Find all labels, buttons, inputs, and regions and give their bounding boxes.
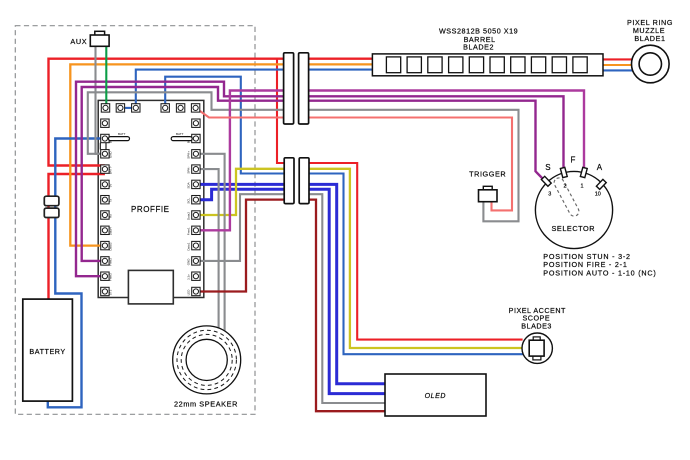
selector terminal 10 [596, 179, 606, 189]
svg-text:3: 3 [548, 192, 551, 198]
pad left nc [101, 119, 109, 127]
svg-text:SPK+: SPK+ [187, 151, 191, 159]
svg-text:SELECTOR: SELECTOR [551, 224, 595, 233]
pad left ST3 [101, 287, 109, 295]
svg-text:SPK-: SPK- [187, 167, 191, 174]
selector terminal 1 [580, 167, 587, 177]
svg-text:A: A [597, 163, 603, 172]
pad right Free1 [192, 226, 200, 234]
svg-text:SCL: SCL [187, 197, 191, 203]
svg-text:S: S [545, 163, 550, 172]
trigger momentary switch body [479, 190, 498, 202]
accessory pass-through tube assembly lower [284, 158, 308, 203]
pad right BATT [192, 134, 200, 142]
wire blue bridge pad2-pad3 [120, 107, 135, 109]
svg-text:BATTERY: BATTERY [29, 347, 65, 356]
pad right SCL [192, 196, 200, 204]
svg-text:Free3: Free3 [108, 273, 112, 281]
scope LED top tab [533, 337, 540, 341]
svg-text:BATT-: BATT- [108, 166, 112, 174]
svg-text:OLED: OLED [425, 393, 446, 400]
svg-text:Rx: Rx [108, 214, 112, 218]
BATT+ strip right [171, 137, 192, 141]
svg-text:LED: LED [187, 289, 191, 296]
wire gray speaker wire 1 [196, 154, 225, 340]
svg-text:5V: 5V [108, 184, 112, 188]
svg-text:Data1: Data1 [187, 242, 191, 250]
selector terminal 3 [541, 176, 551, 186]
pad right 3.3v [192, 272, 200, 280]
wire blue pad4 to scope pixel negative [165, 77, 523, 355]
pixel ring muzzle BLADE1 [632, 45, 670, 83]
svg-text:Data3: Data3 [108, 242, 112, 250]
svg-text:Free2: Free2 [108, 258, 112, 266]
svg-text:10: 10 [595, 192, 601, 198]
svg-text:Data2: Data2 [187, 212, 191, 220]
selector knob pointer (dashed) [552, 176, 580, 218]
pad left Tx [101, 196, 109, 204]
svg-text:BLADE1: BLADE1 [634, 34, 665, 43]
wire gray trigger ground: GND pad loop over board to trigger [88, 92, 519, 221]
pad right SDA [192, 180, 200, 188]
pad top 3 [132, 104, 140, 112]
pad left GND [101, 150, 109, 158]
wire dark red 3.3V LED pad to OLED power [196, 200, 385, 412]
pad left 5V [101, 180, 109, 188]
chassis dashed boundary box [15, 26, 255, 415]
selector terminal 2 [560, 167, 567, 177]
wire red branch down to lower tube, to scope pixel power [277, 59, 523, 340]
wire SDA deep blue to OLED [196, 184, 385, 383]
battery 2-pin connector block upper [44, 196, 59, 206]
wire purple Free3 pad to selector terminal 2 [76, 82, 564, 277]
BATT+ strip left [109, 137, 130, 141]
pad top 4 [161, 104, 169, 112]
pad right SPK+ [192, 150, 200, 158]
pad left Data3 [101, 241, 109, 249]
pad left BATT- [101, 165, 109, 173]
pad right nc [192, 119, 200, 127]
svg-text:PROFFIE: PROFFIE [131, 205, 170, 214]
wire purple Free2 pad to selector terminal 3 [82, 87, 545, 261]
battery BT1 [23, 299, 73, 401]
scope LED bottom tab [533, 356, 541, 360]
pad right LED [192, 287, 200, 295]
wire blue strip to muzzle ring [603, 69, 634, 71]
battery 2-pin connector block lower [44, 208, 59, 217]
svg-text:AUX: AUX [70, 37, 87, 46]
svg-text:Data4: Data4 [108, 227, 112, 235]
pad link BATT to GND left [100, 143, 106, 150]
wire gray speaker wire 2 [196, 169, 219, 340]
svg-text:1: 1 [580, 183, 583, 189]
svg-text:Tx: Tx [108, 199, 112, 203]
wire orange Data3 pad to barrel strip data [70, 64, 372, 245]
pad right Data1 [192, 241, 200, 249]
OLED display module [385, 374, 486, 416]
svg-text:BLADE2: BLADE2 [463, 43, 494, 52]
pad right SPK- [192, 165, 200, 173]
wire battery positive red: pad to 2-pin connector to battery [49, 174, 105, 299]
svg-text:GND: GND [108, 151, 112, 159]
wire blue negative: pad3 riser to barrel strip [136, 70, 373, 108]
wire gray AUX switch to GND pad [96, 46, 105, 154]
wire orange strip to muzzle ring [603, 64, 633, 66]
svg-text:GND: GND [187, 258, 191, 266]
svg-text:2: 2 [563, 183, 566, 189]
svg-text:SDA: SDA [187, 182, 191, 188]
wire SCL deep blue to OLED [196, 189, 385, 393]
pad left Rx [101, 211, 109, 219]
svg-text:Free1: Free1 [187, 227, 191, 235]
svg-text:22mm SPEAKER: 22mm SPEAKER [174, 399, 238, 408]
pad right Data2 [192, 211, 200, 219]
wire magenta Free1 pad to selector terminal 1 [196, 91, 584, 231]
pad left Free2 [101, 257, 109, 265]
pad top 1 [101, 104, 109, 112]
pad top 6 [191, 104, 199, 112]
speaker SP1 22mm [173, 326, 241, 394]
USB connector on board [128, 270, 173, 304]
pad top 2 [116, 104, 124, 112]
WS2812B barrel LED strip BLADE2 [372, 54, 603, 76]
pad right GND [192, 257, 200, 265]
svg-text:BATT: BATT [118, 132, 126, 136]
svg-text:F: F [570, 156, 575, 165]
wire light red pad6 to trigger switch [196, 108, 512, 210]
svg-text:ST3: ST3 [108, 289, 112, 295]
trigger momentary switch cap [483, 186, 492, 190]
pad top 5 [176, 104, 184, 112]
wire battery positive red: BATT+ pad to top run to barrel strip [49, 59, 373, 166]
wire gray GND pad to OLED ground [196, 194, 385, 403]
pad left Data4 [101, 226, 109, 234]
AUX momentary switch cap [95, 31, 105, 36]
wire yellow Data2 pad to scope pixel data [196, 169, 523, 348]
pad left Free3 [101, 272, 109, 280]
barrel pass-through tube assembly upper [284, 53, 309, 124]
svg-text:BATT: BATT [176, 132, 184, 136]
wire red strip to muzzle ring [603, 58, 633, 60]
svg-text:BLADE3: BLADE3 [521, 322, 552, 331]
wire blue battery negative: BATT pad around battery to bottom [48, 139, 105, 408]
scope LED body [529, 340, 544, 356]
wire green AUX switch to pad1 [105, 46, 107, 108]
svg-text:POSITION AUTO - 1-10 (NC): POSITION AUTO - 1-10 (NC) [543, 268, 656, 277]
AUX momentary switch body [90, 35, 109, 46]
selector rotary switch body [535, 171, 612, 248]
svg-text:TRIGGER: TRIGGER [469, 169, 506, 178]
pad left BATT [101, 134, 109, 142]
pixel accent scope BLADE3 body [522, 333, 552, 363]
svg-text:3.3v: 3.3v [187, 274, 191, 280]
Proffie board U1 outline [98, 100, 204, 297]
